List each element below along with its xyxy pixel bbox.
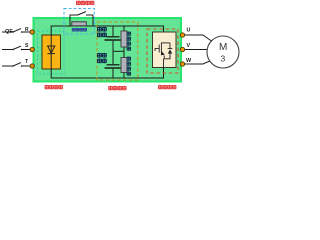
freewheel diode D2 [168, 43, 173, 59]
label "equalizing resistor" for R2 (vertical) [127, 57, 131, 76]
label "equalizing resistor" for R1 (vertical) [127, 32, 131, 51]
breaker QF pole, phase S wire [2, 46, 30, 49]
bypass switch (buffer relay contact) [70, 12, 93, 26]
wire DC+ bus [51, 26, 163, 35]
wire DC- bus [51, 68, 163, 79]
label "electrolytic capacitor" for C2 [97, 53, 106, 63]
node W (output terminal) [180, 62, 184, 66]
filter dashed box [97, 22, 138, 80]
rectifier circuit dashed outline [38, 31, 65, 74]
wire U to motor [185, 35, 212, 41]
breaker QF pole, phase R wire [2, 29, 30, 32]
wire W to motor [185, 61, 210, 64]
wire mid junction [113, 50, 124, 52]
equalizing resistor R1 [121, 31, 127, 47]
svg-text:3: 3 [221, 54, 226, 64]
label "inverter circuit" (red) [158, 85, 176, 89]
label "electrolytic capacitor" for C1 [97, 27, 106, 37]
label "buffer circuit" (red) [76, 1, 94, 5]
node U (output terminal) [180, 33, 184, 37]
frequency converter green enclosure [34, 18, 182, 82]
breaker QF pole, phase T wire [2, 63, 30, 66]
rectifier bridge module [42, 35, 61, 69]
svg-text:M: M [219, 42, 227, 53]
motor M3 [207, 36, 239, 68]
charging resistor R [72, 22, 87, 26]
svg-text:R: R [25, 27, 29, 33]
node V (output terminal) [180, 47, 184, 51]
label "rectifier circuit" (red) [45, 85, 63, 89]
wire V to motor [185, 49, 208, 51]
wire equalizing branch [123, 26, 125, 78]
transistor Q1 (IGBT) [155, 43, 170, 68]
label "filter circuit" (red) [109, 86, 127, 90]
diode D1 [47, 35, 55, 69]
svg-text:V: V [187, 43, 191, 49]
inverter dashed box [147, 29, 178, 73]
buffer circuit dashed box [64, 9, 94, 35]
equalizing resistor R2 [121, 58, 127, 73]
svg-text:T: T [25, 59, 28, 65]
capacitor C1 [112, 26, 114, 36]
capacitor C2 [112, 51, 114, 64]
transistor Q1 emitter arrow [161, 51, 165, 55]
IGBT module box [153, 32, 177, 68]
svg-text:U: U [187, 28, 191, 34]
value label "charging resistor" (blue) [72, 28, 87, 32]
